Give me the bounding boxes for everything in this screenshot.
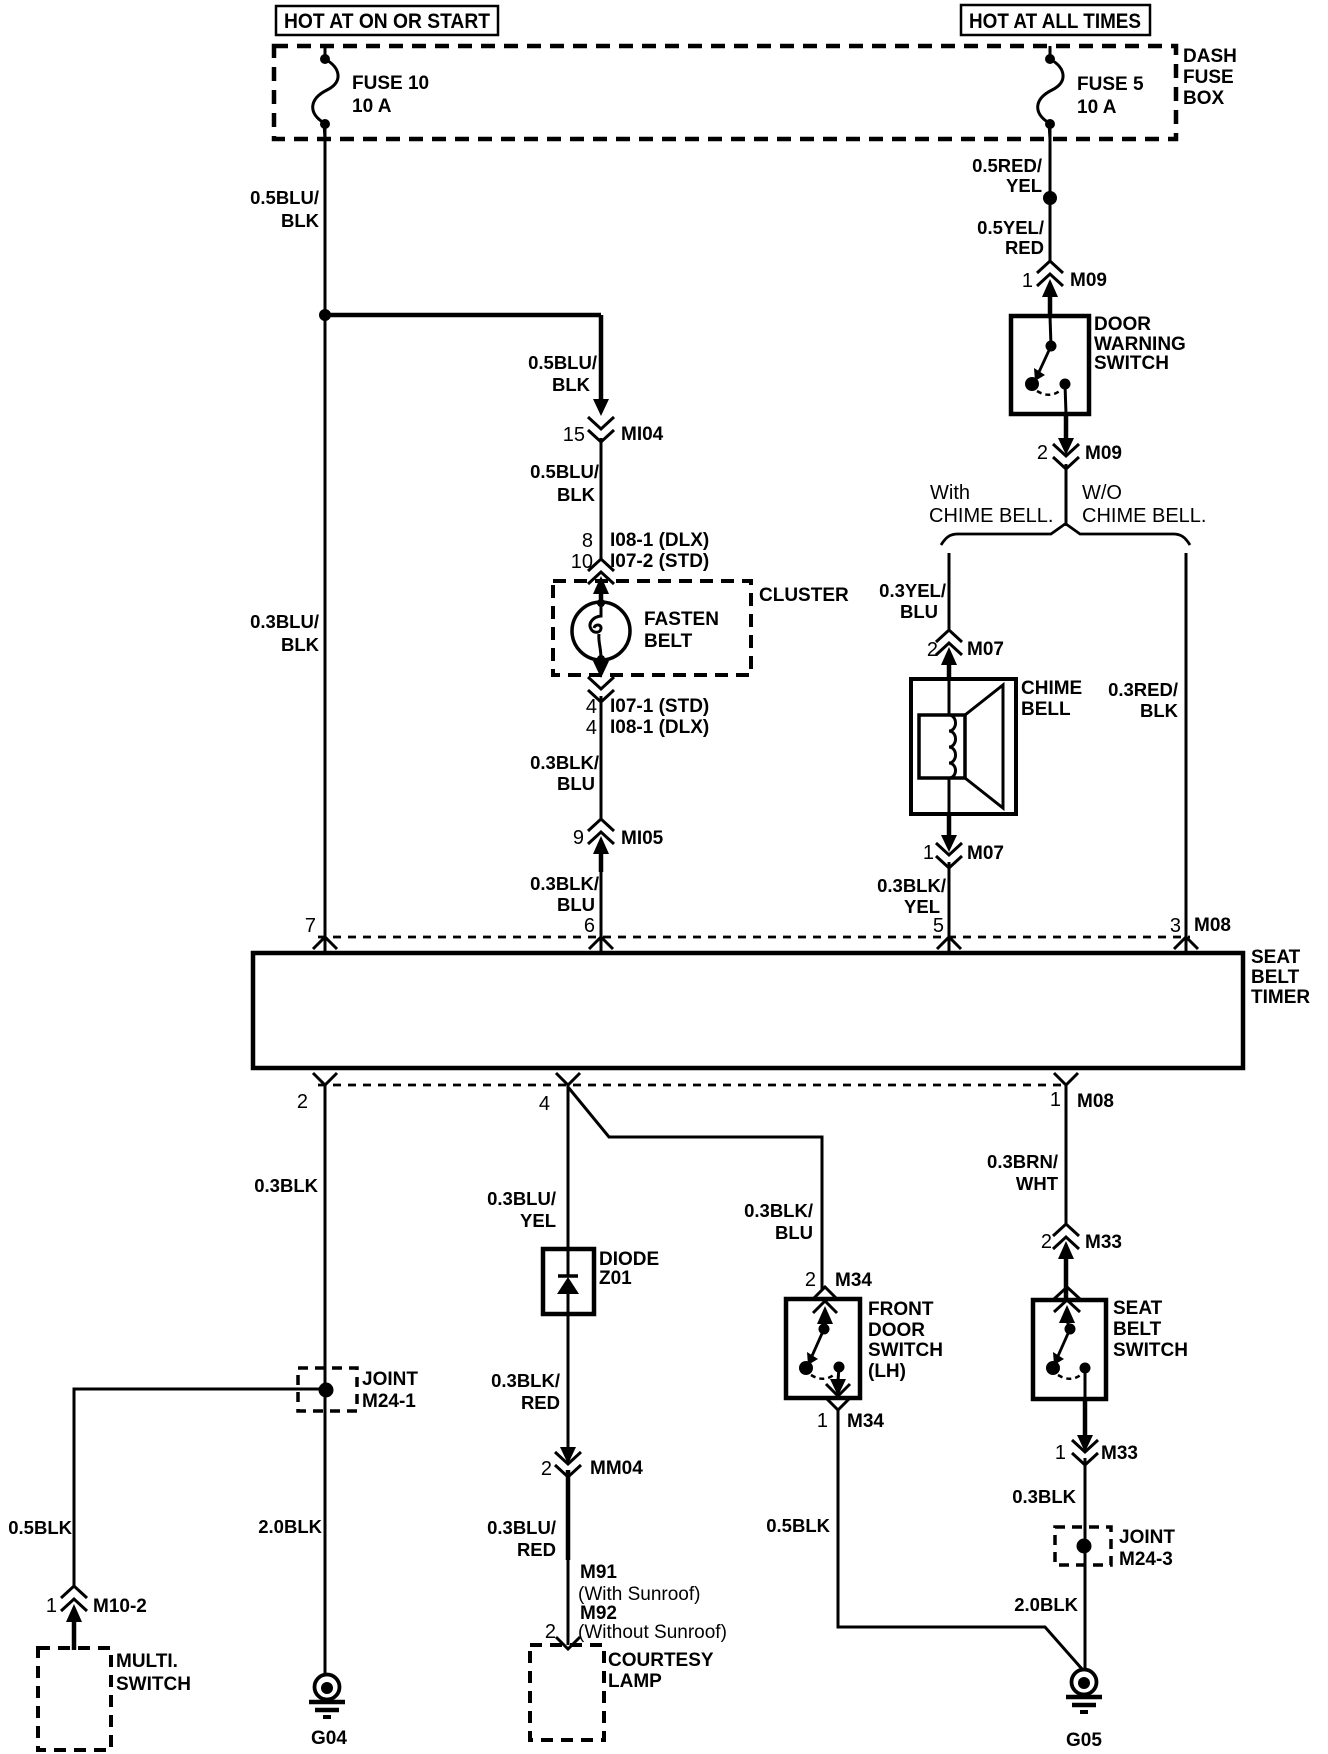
svg-text:MI04: MI04 [621,424,664,445]
svg-text:BLK: BLK [552,374,591,395]
node HOT AT ALL TIMES [961,5,1150,35]
svg-text:0.5BLU/: 0.5BLU/ [528,352,597,373]
joint M24-3 [1055,1527,1175,1570]
junction node left [319,309,331,321]
svg-text:2: 2 [927,639,938,661]
svg-text:0.3BLK/: 0.3BLK/ [744,1200,813,1221]
front door switch [786,1299,943,1398]
pin 7 chevron [313,937,337,949]
wire fuse5 down 0.5RED/YEL [972,124,1050,198]
svg-text:FUSE 10: FUSE 10 [352,73,429,94]
svg-text:1: 1 [1055,1442,1066,1464]
ground G04 [309,1675,347,1750]
svg-text:M34: M34 [847,1411,884,1432]
wire M33 to joint 0.3BLK [1012,1458,1085,1670]
svg-text:BLK: BLK [1140,700,1179,721]
svg-text:RED: RED [517,1539,556,1560]
wire timer pin2 to ground 0.3BLK / 2.0BLK [254,1085,325,1676]
svg-text:0.3BLU/: 0.3BLU/ [250,611,319,632]
svg-text:MULTI.: MULTI. [116,1651,178,1672]
chime bell [911,678,1082,814]
pin 3 chevron [1174,937,1198,949]
svg-text:2: 2 [297,1091,308,1113]
svg-text:4: 4 [539,1093,550,1115]
svg-text:0.5BLK: 0.5BLK [8,1517,72,1538]
svg-text:0.3YEL/: 0.3YEL/ [879,580,946,601]
svg-text:M33: M33 [1101,1443,1138,1464]
pin 1 chevron [1050,1073,1078,1111]
svg-text:BLK: BLK [281,634,320,655]
wire timer pin1 to M33 0.3BRN/WHT [987,1085,1066,1225]
svg-text:I08-1 (DLX): I08-1 (DLX) [610,530,709,551]
wire left main 0.3BLU/BLK [250,315,325,953]
svg-text:2: 2 [1041,1231,1052,1253]
svg-text:8: 8 [582,530,593,552]
svg-text:M34: M34 [835,1270,872,1291]
svg-text:I07-1 (STD): I07-1 (STD) [610,696,709,717]
svg-text:M08: M08 [1194,915,1231,936]
svg-text:JOINT: JOINT [362,1369,418,1390]
cluster box [553,581,849,675]
connector courtesy pin 2 [545,1621,580,1649]
svg-text:M07: M07 [967,843,1004,864]
seat belt switch [1033,1287,1188,1399]
svg-text:2: 2 [805,1269,816,1291]
svg-text:0.3RED/: 0.3RED/ [1108,679,1178,700]
seat belt timer [253,947,1310,1068]
svg-text:WARNING: WARNING [1094,334,1186,355]
svg-text:M33: M33 [1085,1232,1122,1253]
wire chime to timer 0.3BLK/YEL [877,862,949,953]
connector M09 pin 1 [1022,261,1107,318]
wire M09 to branch [1065,464,1068,526]
svg-text:I07-2 (STD): I07-2 (STD) [610,551,709,572]
svg-text:SWITCH: SWITCH [116,1674,191,1695]
dash fuse box [274,46,1237,139]
svg-text:RED: RED [1005,237,1044,258]
svg-text:4: 4 [586,696,597,718]
connector M34 pin 2 [805,1269,873,1299]
connector MM04 pin 2 [541,1447,643,1480]
svg-text:YEL: YEL [1006,175,1042,196]
svg-text:SWITCH: SWITCH [1113,1340,1188,1361]
svg-text:FUSE: FUSE [1183,67,1234,88]
svg-text:(LH): (LH) [868,1361,906,1382]
svg-text:M24-3: M24-3 [1119,1549,1173,1570]
svg-text:2.0BLK: 2.0BLK [258,1516,322,1537]
svg-text:HOT AT ALL TIMES: HOT AT ALL TIMES [969,10,1141,33]
diode Z01 [543,1249,659,1314]
svg-text:MM04: MM04 [590,1458,643,1479]
svg-text:JOINT: JOINT [1119,1527,1175,1548]
svg-text:SEAT: SEAT [1113,1298,1163,1319]
node W/O CHIME BELL label [1082,482,1206,527]
svg-text:0.3BLK/: 0.3BLK/ [491,1370,560,1391]
svg-text:W/O: W/O [1082,482,1122,504]
svg-text:RED: RED [521,1392,560,1413]
svg-text:0.5RED/: 0.5RED/ [972,155,1042,176]
svg-text:0.3BLK/: 0.3BLK/ [877,875,946,896]
svg-text:BELT: BELT [644,631,693,652]
svg-text:G05: G05 [1066,1730,1102,1751]
connector dashed line timer bottom [318,1085,1114,1112]
svg-text:DOOR: DOOR [1094,314,1151,335]
joint M24-1 [298,1368,418,1412]
svg-text:5: 5 [933,915,944,937]
svg-text:BLK: BLK [557,484,596,505]
node HOT AT ON OR START [276,6,498,35]
multi switch box [38,1648,191,1750]
svg-text:BOX: BOX [1183,88,1225,109]
svg-text:1: 1 [1022,270,1033,292]
connector M09 pin 2 [1037,414,1122,469]
svg-text:0.3BLK: 0.3BLK [1012,1486,1076,1507]
svg-text:BLU: BLU [775,1222,813,1243]
svg-text:BLU: BLU [557,894,595,915]
node With CHIME BELL label [929,482,1053,527]
svg-text:1: 1 [923,842,934,864]
svg-text:CHIME BELL.: CHIME BELL. [929,505,1053,527]
svg-text:M07: M07 [967,639,1004,660]
svg-text:HOT AT ON OR START: HOT AT ON OR START [284,10,490,33]
connector M07 pin 2 [927,630,1004,680]
svg-text:M08: M08 [1077,1091,1114,1112]
connector M34 pin 1 [817,1398,885,1432]
svg-text:7: 7 [305,915,316,937]
svg-text:DOOR: DOOR [868,1320,925,1341]
courtesy lamp box [530,1645,714,1740]
svg-text:M09: M09 [1070,270,1107,291]
svg-text:2: 2 [1037,442,1048,464]
svg-text:0.3BRN/: 0.3BRN/ [987,1151,1058,1172]
svg-text:YEL: YEL [520,1210,556,1231]
wire diode to MM04 0.3BLK/RED [491,1314,568,1448]
svg-text:With: With [930,482,970,504]
svg-text:DIODE: DIODE [599,1249,659,1270]
svg-text:9: 9 [573,827,584,849]
svg-text:M91: M91 [580,1562,617,1583]
svg-text:SWITCH: SWITCH [1094,353,1169,374]
junction node right [1043,191,1057,205]
connector M08 pin 3 [1170,915,1231,937]
svg-text:2.0BLK: 2.0BLK [1014,1594,1078,1615]
connector MI04 pin 15 [563,399,664,446]
svg-text:4: 4 [586,717,597,739]
svg-text:3: 3 [1170,915,1181,937]
svg-text:2: 2 [545,1621,556,1643]
ground G05 [1066,1670,1102,1752]
svg-text:CLUSTER: CLUSTER [759,585,849,606]
svg-text:FASTEN: FASTEN [644,609,719,630]
wire timer pin4 to diode 0.3BLU/YEL [487,1085,568,1250]
lamp FASTEN BELT [572,599,719,663]
pin 6 chevron [589,937,613,949]
svg-text:BLU: BLU [900,601,938,622]
svg-text:0.5BLU/: 0.5BLU/ [530,461,599,482]
wire joint to multi switch 0.5BLK [8,1389,326,1588]
svg-text:MI05: MI05 [621,828,664,849]
svg-text:WHT: WHT [1016,1173,1059,1194]
wire MI05 to timer 0.3BLK/BLU [530,870,601,953]
wire fuse10 to junction 0.5BLU/BLK [250,124,325,315]
svg-text:M24-1: M24-1 [362,1391,416,1412]
svg-text:M09: M09 [1085,443,1122,464]
svg-text:0.3BLK: 0.3BLK [254,1175,318,1196]
connector dashed line timer top [305,915,1190,937]
pin 2 chevron [297,1073,337,1113]
wire cluster to MI05 0.3BLK/BLU [530,696,601,820]
svg-text:COURTESY: COURTESY [608,1650,714,1671]
connector M10-2 pin 1 [46,1586,147,1650]
svg-text:CHIME BELL.: CHIME BELL. [1082,505,1206,527]
pin 4 chevron [539,1073,580,1115]
svg-text:1: 1 [1050,1089,1061,1111]
svg-text:10 A: 10 A [1077,97,1117,118]
svg-text:0.3BLU/: 0.3BLU/ [487,1188,556,1209]
svg-text:0.5BLU/: 0.5BLU/ [250,187,319,208]
wire junction to M09 0.5YEL/RED [977,198,1050,263]
svg-text:DASH: DASH [1183,46,1237,67]
svg-text:2: 2 [541,1458,552,1480]
svg-text:BLK: BLK [281,210,320,231]
svg-text:I08-1 (DLX): I08-1 (DLX) [610,717,709,738]
svg-text:1: 1 [46,1595,57,1617]
fuse F5 10A [1038,46,1144,139]
wire wo-chime branch 0.3RED/BLK [1108,553,1186,953]
pin 5 chevron [937,937,961,949]
svg-text:10: 10 [571,551,593,573]
svg-text:M10-2: M10-2 [93,1596,147,1617]
fuse F10 10A [313,46,429,139]
wire MI04 to cluster 0.5BLU/BLK [530,438,601,560]
svg-text:0.5YEL/: 0.5YEL/ [977,217,1044,238]
svg-text:G04: G04 [311,1728,347,1749]
svg-text:BLU: BLU [557,773,595,794]
connector M33 pin 2 [1041,1224,1122,1302]
wire front door switch to ground 0.5BLK [766,1410,1082,1669]
wire to connector MI04 0.5BLU/BLK [599,315,604,404]
node M91 M92 sunroof labels [578,1562,727,1643]
wire timer pin4 to front door switch 0.3BLK/BLU [568,1087,822,1290]
svg-text:Z01: Z01 [599,1268,632,1289]
svg-text:YEL: YEL [904,896,940,917]
svg-text:BELT: BELT [1251,967,1300,988]
svg-text:FUSE 5: FUSE 5 [1077,74,1144,95]
svg-text:0.3BLK/: 0.3BLK/ [530,752,599,773]
svg-text:1: 1 [817,1410,828,1432]
svg-text:6: 6 [584,915,595,937]
connector I08-1 pin 8 / I07-2 pin 10 [571,530,710,603]
svg-text:0.3BLU/: 0.3BLU/ [487,1517,556,1538]
svg-text:LAMP: LAMP [608,1671,662,1692]
connector M33 pin 1 [1055,1399,1138,1465]
wire junction horizontal [325,313,601,318]
svg-text:15: 15 [563,424,585,446]
svg-text:SEAT: SEAT [1251,947,1301,968]
svg-text:10 A: 10 A [352,96,392,117]
svg-text:(Without Sunroof): (Without Sunroof) [578,1622,727,1643]
wire with-chime branch 0.3YEL/BLU [879,553,949,631]
svg-text:BELL: BELL [1021,699,1071,720]
connector M07 pin 1 [923,814,1004,868]
svg-text:(With Sunroof): (With Sunroof) [578,1584,700,1605]
svg-text:0.3BLK/: 0.3BLK/ [530,873,599,894]
door warning switch [1011,314,1186,414]
svg-text:CHIME: CHIME [1021,678,1082,699]
svg-text:FRONT: FRONT [868,1299,934,1320]
svg-text:M92: M92 [580,1603,617,1624]
svg-text:SWITCH: SWITCH [868,1340,943,1361]
svg-text:TIMER: TIMER [1251,987,1310,1008]
svg-text:0.5BLK: 0.5BLK [766,1515,830,1536]
svg-text:BELT: BELT [1113,1319,1162,1340]
wire MM04 to courtesy lamp 0.3BLU/RED [487,1470,568,1645]
connector MI05 pin 9 [573,819,664,872]
connector I07-1 pin 4 / I08-1 pin 4 [586,659,709,739]
wire branch brace [941,524,1190,545]
